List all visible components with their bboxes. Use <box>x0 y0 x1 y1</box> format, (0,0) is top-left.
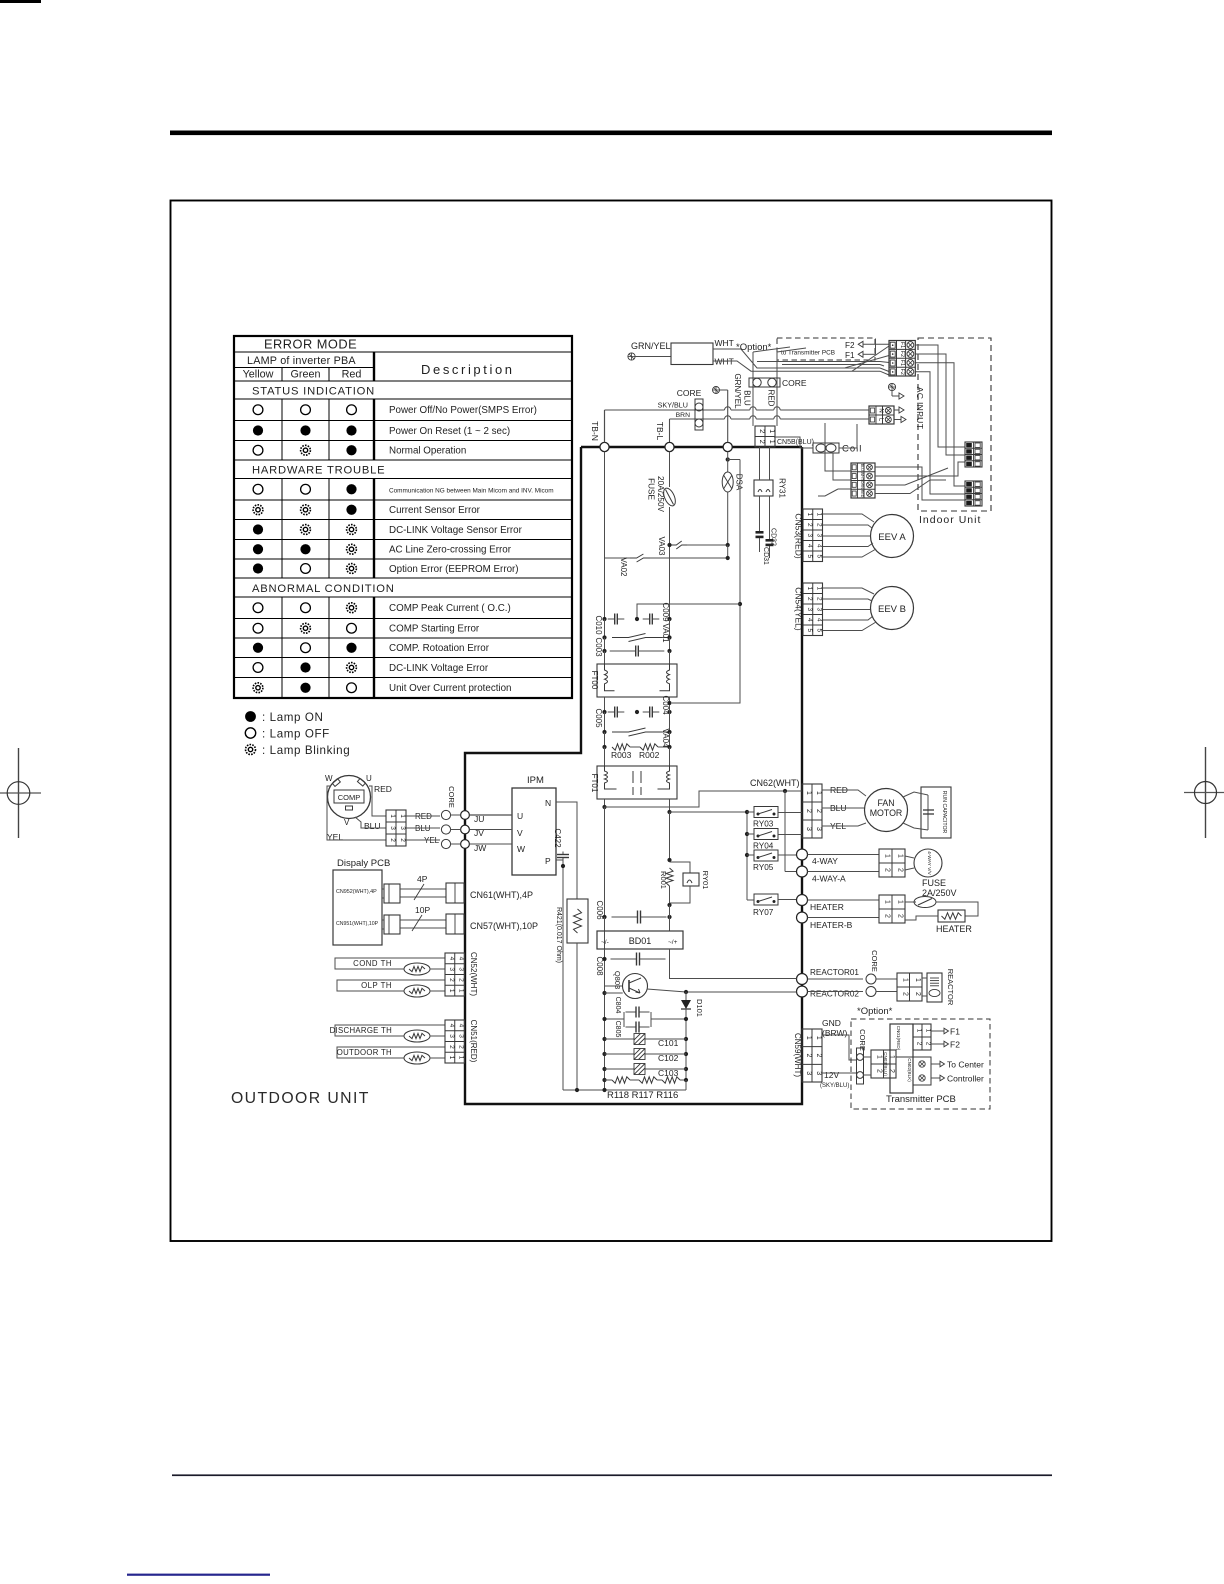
wire RED vertical <box>776 352 778 426</box>
svg-text:~/-: ~/- <box>601 939 609 946</box>
svg-text:WHT: WHT <box>860 472 864 481</box>
wires into comm block <box>825 423 851 471</box>
capacitor C005 <box>604 697 606 712</box>
svg-text:GND: GND <box>822 1018 841 1028</box>
svg-text:Controller: Controller <box>947 1074 984 1084</box>
svg-text:F1: F1 <box>845 351 855 360</box>
wire IPM N <box>556 802 577 899</box>
terminal REACTOR01 <box>797 974 808 985</box>
svg-text:2: 2 <box>875 1069 882 1073</box>
wire coil to CN5B <box>774 437 813 448</box>
legend lamp OFF <box>245 728 255 738</box>
svg-text:CN952(WHT),4P: CN952(WHT),4P <box>336 889 377 895</box>
svg-text:1: 1 <box>805 791 812 795</box>
svg-text:CORE: CORE <box>447 786 456 808</box>
svg-text:F2: F2 <box>899 368 905 374</box>
svg-text:2: 2 <box>758 429 767 433</box>
wires comm block to indoor unit <box>875 467 965 500</box>
coil <box>813 443 839 453</box>
svg-text:COMP Peak Current ( O.C.): COMP Peak Current ( O.C.) <box>389 603 511 614</box>
reactor <box>927 973 942 1002</box>
wire coil to NL block <box>839 424 857 448</box>
svg-text:RY04: RY04 <box>753 842 774 851</box>
capacitor C004 <box>643 711 650 713</box>
node JV <box>461 825 470 834</box>
table row: Communication NG between Main Micom and INV. Micom <box>253 484 263 494</box>
compressor COMP <box>328 776 371 819</box>
svg-text:3: 3 <box>806 533 813 537</box>
svg-text:CN02(BLK): CN02(BLK) <box>907 1058 912 1082</box>
svg-text:3: 3 <box>458 967 465 971</box>
svg-text:C005: C005 <box>594 708 603 728</box>
svg-text:V: V <box>517 828 523 838</box>
wires fan to capacitor <box>903 792 928 797</box>
connector display 10P side <box>384 915 400 934</box>
table row: DC-LINK Voltage Error <box>253 663 263 673</box>
svg-text:3: 3 <box>816 607 823 611</box>
svg-text:DC-LINK Voltage Error: DC-LINK Voltage Error <box>389 663 489 674</box>
heater element <box>938 910 965 922</box>
wires CN53 to EEV A <box>823 514 875 522</box>
terminal TB-L <box>669 419 671 443</box>
svg-text:EEV A: EEV A <box>878 532 906 543</box>
svg-text:Transmitter PCB: Transmitter PCB <box>886 1094 956 1105</box>
connector CN02 screws <box>913 1057 931 1085</box>
svg-text:1: 1 <box>875 1055 882 1059</box>
svg-text:4P: 4P <box>417 874 428 884</box>
svg-text:4: 4 <box>816 544 823 548</box>
bottom rule <box>172 1474 1052 1476</box>
table row: Option Error (EEPROM Error) <box>253 563 263 573</box>
svg-text:1: 1 <box>806 586 813 590</box>
svg-text:RY07: RY07 <box>753 908 774 917</box>
arrow F1 <box>931 1030 944 1032</box>
svg-text:W: W <box>325 774 333 783</box>
svg-text:2: 2 <box>815 1054 822 1058</box>
svg-text:CN951(WHT),10P: CN951(WHT),10P <box>336 921 379 927</box>
svg-text:STATUS INDICATION: STATUS INDICATION <box>252 386 375 398</box>
svg-text:Power Off/No Power(SMPS Error): Power Off/No Power(SMPS Error) <box>389 405 537 416</box>
transistor Q803 <box>605 985 624 987</box>
svg-text:C103: C103 <box>658 1068 679 1078</box>
wire CN59 to option core <box>822 1035 856 1060</box>
svg-text:2: 2 <box>925 1042 932 1046</box>
node JW <box>461 840 470 849</box>
capacitor C102 <box>602 1052 606 1056</box>
line filter FT01 <box>604 747 606 766</box>
svg-text:2: 2 <box>897 868 904 872</box>
svg-text:ABNORMAL CONDITION: ABNORMAL CONDITION <box>252 583 395 595</box>
svg-text:V: V <box>344 818 350 827</box>
svg-text:VA01: VA01 <box>661 624 670 644</box>
svg-text:GRN/YEL: GRN/YEL <box>733 373 742 409</box>
relay RY03 <box>754 807 778 818</box>
svg-text:BLU: BLU <box>743 390 752 406</box>
svg-text:RY05: RY05 <box>753 863 774 872</box>
svg-text:5: 5 <box>816 554 823 558</box>
capacitor CD31 <box>769 496 771 539</box>
svg-text:: Lamp OFF: : Lamp OFF <box>262 728 330 741</box>
svg-text:F1: F1 <box>899 342 905 348</box>
svg-text:Unit Over Current protection: Unit Over Current protection <box>389 683 512 694</box>
error mode table frame <box>234 336 572 698</box>
svg-text:HEATER: HEATER <box>936 924 972 934</box>
wire diagonal RED to option <box>777 348 806 352</box>
fan motor <box>865 789 908 832</box>
svg-text:CN5B(BLU): CN5B(BLU) <box>777 439 814 446</box>
svg-text:Green: Green <box>290 369 320 381</box>
wire mid horizontal to filter <box>637 604 740 619</box>
svg-text:CN57(WHT),10P: CN57(WHT),10P <box>470 921 538 931</box>
svg-text:2: 2 <box>805 1054 812 1058</box>
svg-text:COMP. Rotoation Error: COMP. Rotoation Error <box>389 643 490 654</box>
svg-text:CORE: CORE <box>870 950 879 972</box>
svg-text:1: 1 <box>897 854 904 858</box>
svg-text:*Option*: *Option* <box>736 342 772 353</box>
svg-text:4-WAY V/V: 4-WAY V/V <box>926 851 932 875</box>
svg-text:C006: C006 <box>595 900 604 920</box>
svg-text:MOTOR: MOTOR <box>870 808 903 818</box>
svg-text:RY03: RY03 <box>753 820 774 829</box>
svg-text:5: 5 <box>806 628 813 632</box>
top rule <box>170 131 1052 136</box>
connector CN53(RED) <box>803 509 823 562</box>
terminal block N L <box>869 406 894 424</box>
svg-text:C102: C102 <box>658 1053 679 1063</box>
core on BLU RED wires <box>749 378 780 387</box>
svg-text:1: 1 <box>458 989 465 993</box>
svg-text:1: 1 <box>925 1029 932 1033</box>
svg-text:2: 2 <box>758 440 767 444</box>
svg-text:Red: Red <box>342 369 362 381</box>
svg-text:COND TH: COND TH <box>353 959 392 968</box>
svg-text:F2: F2 <box>950 1040 960 1050</box>
svg-text:CORE: CORE <box>677 388 702 398</box>
wire Q803 to reactor02 <box>602 991 606 995</box>
run capacitor <box>921 787 951 838</box>
svg-text:VA02: VA02 <box>619 558 628 578</box>
svg-text:3: 3 <box>805 1071 812 1075</box>
svg-text:2: 2 <box>884 868 891 872</box>
node earth terminal on bus <box>723 442 732 451</box>
svg-text:(BRW): (BRW) <box>822 1028 848 1038</box>
svg-text:CN54(YEL): CN54(YEL) <box>794 587 804 631</box>
svg-text:CN01(RED): CN01(RED) <box>896 1026 901 1051</box>
svg-text:F1: F1 <box>899 360 905 366</box>
wire BLU vertical <box>752 352 754 426</box>
relay RY07 <box>754 894 778 905</box>
relay RY01 <box>670 862 691 873</box>
legend lamp ON <box>245 711 256 722</box>
EEV A motor <box>871 515 914 558</box>
svg-text:2: 2 <box>389 838 396 842</box>
legend lamp Blinking <box>246 745 256 755</box>
connector CN51(RED) <box>445 1020 465 1063</box>
svg-text:2: 2 <box>805 809 812 813</box>
earth ground GRN/YEL vertical <box>713 387 720 394</box>
wire relay rail <box>746 812 748 900</box>
svg-text:2: 2 <box>897 914 904 918</box>
wires CN5B to RY31 <box>759 447 761 480</box>
connector CN52(WHT) <box>445 953 465 996</box>
wires AC to indoor unit <box>915 345 965 447</box>
svg-text:HEATER: HEATER <box>810 902 844 912</box>
svg-text:1: 1 <box>768 440 777 444</box>
EEV B motor <box>871 587 914 630</box>
svg-text:1: 1 <box>884 854 891 858</box>
svg-text:BLU: BLU <box>364 821 381 831</box>
terminal TB-N <box>604 410 606 443</box>
display PCB block <box>333 870 382 945</box>
svg-text:1: 1 <box>806 512 813 516</box>
svg-text:BLU: BLU <box>860 464 864 471</box>
bridge rectifier BD01 <box>604 917 606 931</box>
svg-text:: Lamp ON: : Lamp ON <box>262 711 323 724</box>
svg-text:RY01: RY01 <box>701 871 710 890</box>
resistor R002 <box>640 744 658 750</box>
svg-text:3: 3 <box>806 607 813 611</box>
svg-text:CORE: CORE <box>782 378 807 388</box>
svg-text:4: 4 <box>816 618 823 622</box>
svg-text:Normal Operation: Normal Operation <box>389 446 466 457</box>
table row: COMP Peak Current ( O.C.) <box>253 603 263 613</box>
svg-text:VA03: VA03 <box>657 537 666 557</box>
svg-text:C422: C422 <box>553 828 562 848</box>
svg-text:C804: C804 <box>614 997 621 1014</box>
svg-text:FT00: FT00 <box>590 671 599 690</box>
svg-text:Option Error (EEPROM Error): Option Error (EEPROM Error) <box>389 564 519 575</box>
svg-text:TB-N: TB-N <box>590 421 600 441</box>
svg-text:REACTOR02: REACTOR02 <box>810 990 859 999</box>
svg-text:20A/250V: 20A/250V <box>656 476 665 513</box>
connector CN61(WHT),4P <box>446 883 464 903</box>
svg-text:2: 2 <box>916 1042 923 1046</box>
svg-text:3: 3 <box>448 967 455 971</box>
svg-text:WHT: WHT <box>715 338 734 348</box>
capacitor C003 <box>604 638 606 652</box>
svg-text:RED: RED <box>767 390 776 407</box>
svg-text:1: 1 <box>448 1056 455 1060</box>
svg-text:RED: RED <box>374 784 392 794</box>
svg-text:Power On Reset (1 ~ 2 sec): Power On Reset (1 ~ 2 sec) <box>389 426 510 437</box>
svg-text:TB-L: TB-L <box>655 422 665 441</box>
table row: COMP Starting Error <box>253 623 263 633</box>
svg-text:2: 2 <box>901 992 908 996</box>
relay RY05 <box>754 850 778 861</box>
svg-text:W: W <box>517 844 525 854</box>
wires CN54 to EEV B <box>823 588 875 594</box>
svg-text:F2: F2 <box>899 351 905 357</box>
resistor R003 <box>604 732 606 747</box>
connector CN01 <box>913 1024 931 1050</box>
connector reactor <box>897 973 922 1001</box>
connector CN5B(BLU) <box>755 426 775 447</box>
svg-text:R001: R001 <box>659 871 668 889</box>
svg-text:Dispaly PCB: Dispaly PCB <box>337 858 390 869</box>
capacitor C009 <box>643 618 650 620</box>
earth ground at AC input <box>888 383 895 390</box>
svg-text:CD32: CD32 <box>770 528 777 546</box>
svg-text:ORN: ORN <box>860 481 864 489</box>
svg-text:REACTOR: REACTOR <box>946 969 955 1006</box>
svg-text:DC-LINK Voltage Sensor Error: DC-LINK Voltage Sensor Error <box>389 525 523 536</box>
table row: COMP. Rotoation Error <box>253 643 263 653</box>
svg-text:1: 1 <box>884 900 891 904</box>
svg-text:2: 2 <box>458 978 465 982</box>
terminal HEATER <box>797 895 808 906</box>
arrow F2 <box>931 1043 944 1045</box>
svg-text:1: 1 <box>815 1036 822 1040</box>
svg-text:AC INPUT: AC INPUT <box>915 387 925 430</box>
svg-text:CN62(WHT): CN62(WHT) <box>750 778 800 788</box>
svg-text:3: 3 <box>805 827 812 831</box>
svg-text:HARDWARE TROUBLE: HARDWARE TROUBLE <box>252 465 385 477</box>
node DSA tap <box>726 457 730 461</box>
svg-text:2: 2 <box>884 914 891 918</box>
surge arrester VA01 row <box>604 619 606 638</box>
svg-text:CN03(BLU): CN03(BLU) <box>883 1052 888 1076</box>
svg-text:SKY/BLU: SKY/BLU <box>658 401 688 410</box>
wire FT01 output right <box>669 799 671 812</box>
relay RY31 <box>754 480 773 496</box>
svg-text:C010: C010 <box>594 615 603 635</box>
table row: Power Off/No Power(SMPS Error) <box>253 405 263 415</box>
left registration mark <box>18 748 20 838</box>
svg-text:AC Line Zero-crossing Error: AC Line Zero-crossing Error <box>389 545 512 556</box>
outer frame box <box>171 201 1052 1242</box>
connector CN62(WHT) <box>802 784 822 838</box>
wire 4-WAY-A feed <box>784 791 786 872</box>
svg-text:3: 3 <box>448 1034 455 1038</box>
surge arrester VA04 row <box>604 712 606 732</box>
resistor R117 <box>630 1079 639 1081</box>
svg-text:ERROR MODE: ERROR MODE <box>264 337 357 352</box>
resistor R116 <box>657 1079 662 1081</box>
capacitor C008 <box>604 949 606 959</box>
svg-text:4-WAY: 4-WAY <box>812 856 838 866</box>
right registration mark <box>1205 747 1207 838</box>
svg-text:~/+: ~/+ <box>668 939 678 946</box>
svg-text:DISCHARGE TH: DISCHARGE TH <box>330 1026 392 1035</box>
arrow Controller <box>931 1077 940 1079</box>
bottom-left blue line <box>127 1574 270 1576</box>
wire mid rails <box>604 807 606 1090</box>
surge arrester VA03 row <box>669 544 672 546</box>
connector CN57(WHT),10P <box>446 914 464 934</box>
svg-text:2: 2 <box>816 523 823 527</box>
svg-text:5: 5 <box>816 628 823 632</box>
svg-text:C008: C008 <box>595 956 604 976</box>
terminal 4-WAY <box>797 849 808 860</box>
wires JU JV JW to IPM <box>469 814 512 816</box>
svg-text:C009: C009 <box>661 602 670 622</box>
svg-text:LAMP of inverter PBA: LAMP of inverter PBA <box>247 355 356 367</box>
svg-text:4: 4 <box>448 1024 455 1028</box>
noise filter block <box>671 343 713 365</box>
svg-text:4: 4 <box>458 957 465 961</box>
svg-text:Yellow: Yellow <box>243 369 274 381</box>
wires comp to connector <box>369 786 386 816</box>
svg-text:N: N <box>877 408 883 412</box>
svg-text:4: 4 <box>448 957 455 961</box>
transmitter PCB block <box>890 1024 913 1093</box>
svg-text:1: 1 <box>816 586 823 590</box>
4-way valve coil <box>914 849 942 877</box>
svg-text:OUTDOOR TH: OUTDOOR TH <box>337 1048 392 1057</box>
svg-text:R003: R003 <box>611 750 632 760</box>
arrow AC line 3 <box>894 419 901 421</box>
svg-text:RY31: RY31 <box>778 478 787 498</box>
svg-text:DSA: DSA <box>735 474 744 491</box>
resistor R421 <box>567 899 588 943</box>
svg-text:IPM: IPM <box>527 775 544 786</box>
connector CN54(YEL) <box>803 583 823 636</box>
svg-text:*Option*: *Option* <box>857 1006 893 1017</box>
svg-text:COMP: COMP <box>338 793 361 802</box>
table row: Unit Over Current protection <box>253 683 263 693</box>
svg-text:1: 1 <box>916 1029 923 1033</box>
svg-text:12V: 12V <box>824 1070 839 1080</box>
svg-text:BRN: BRN <box>676 412 690 419</box>
svg-text:REACTOR01: REACTOR01 <box>810 968 859 977</box>
connector option core side <box>871 1050 896 1078</box>
svg-text:C101: C101 <box>658 1038 679 1048</box>
svg-text:Coil: Coil <box>842 444 862 455</box>
resistor R001 <box>667 858 671 862</box>
svg-text:N: N <box>545 798 551 808</box>
top-left crop bar <box>0 0 41 3</box>
svg-text:CN51(RED): CN51(RED) <box>469 1020 478 1063</box>
svg-text:CN59(WHT): CN59(WHT) <box>793 1033 802 1077</box>
svg-text:2: 2 <box>815 809 822 813</box>
connector comp 1 3 2 <box>386 810 406 846</box>
terminal block outdoor comm <box>851 463 875 498</box>
svg-text:F1: F1 <box>950 1027 960 1037</box>
wire DSA right branch <box>672 460 740 704</box>
surge arrester VA02 row <box>605 557 631 559</box>
svg-text:Current Sensor Error: Current Sensor Error <box>389 505 481 516</box>
svg-text:CD31: CD31 <box>762 547 769 565</box>
svg-text:R421(0.017 Ohm): R421(0.017 Ohm) <box>555 907 562 963</box>
svg-text:10P: 10P <box>415 905 430 915</box>
svg-text:Indoor Unit: Indoor Unit <box>919 514 981 526</box>
connector display 4P side <box>384 884 400 903</box>
svg-text:2: 2 <box>806 597 813 601</box>
svg-text:CN53(RED): CN53(RED) <box>794 513 804 559</box>
svg-text:1: 1 <box>897 900 904 904</box>
IPM block <box>512 788 556 875</box>
terminal 4-WAY-A <box>797 866 808 877</box>
svg-text:3: 3 <box>389 826 396 830</box>
svg-text:R118 R117 R116: R118 R117 R116 <box>607 1090 678 1101</box>
svg-text:GRN/YEL: GRN/YEL <box>631 341 671 351</box>
indoor terminal block upper <box>965 442 982 467</box>
indoor terminal block lower <box>965 481 982 506</box>
arrow AC line 2 <box>894 409 899 411</box>
svg-text:2: 2 <box>458 1045 465 1049</box>
svg-text:1: 1 <box>768 429 777 433</box>
svg-text:CN61(WHT),4P: CN61(WHT),4P <box>470 890 533 900</box>
svg-text:4: 4 <box>458 1024 465 1028</box>
svg-text:1: 1 <box>448 989 455 993</box>
svg-text:F2: F2 <box>845 341 855 350</box>
capacitor CD32 <box>759 496 761 531</box>
svg-text:FUSE: FUSE <box>922 878 946 888</box>
option dashed box transmitter <box>851 1019 990 1109</box>
svg-text:4: 4 <box>806 618 813 622</box>
node JU <box>461 811 470 820</box>
relay RY04 <box>754 829 778 840</box>
